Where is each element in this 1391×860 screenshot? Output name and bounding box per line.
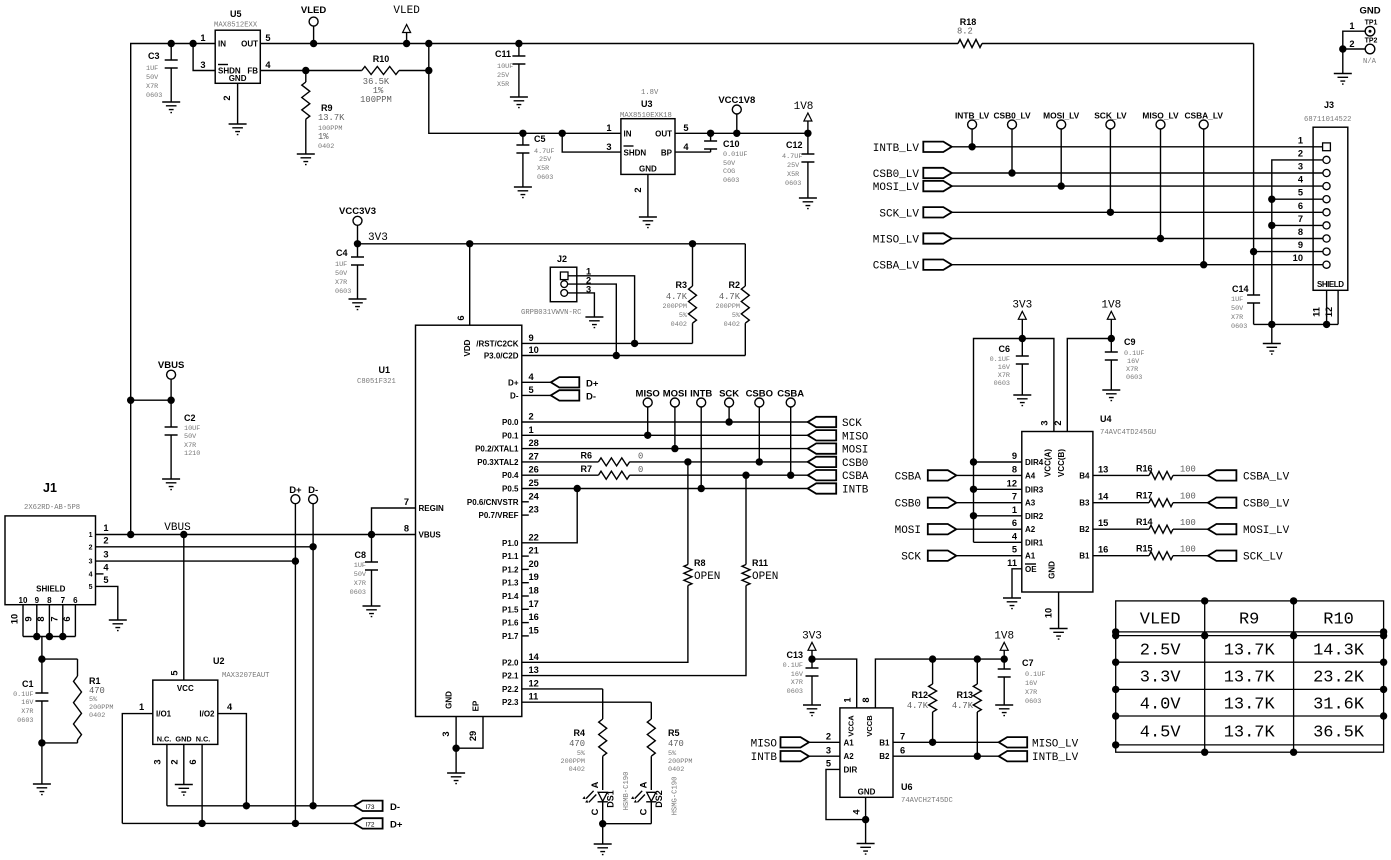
op-amp U5 MAX8512EXK regulator [200, 9, 271, 101]
op-amp U3 MAX8510EXK18 regulator [606, 89, 689, 193]
wire to ground [455, 748, 457, 773]
svg-text:10: 10 [10, 614, 20, 624]
LED DS2 HSMG-C190 [631, 777, 680, 824]
svg-text:P0.0: P0.0 [502, 418, 519, 427]
power symbol 1V8 arrow U4 [1101, 300, 1121, 339]
test point TP2 [1343, 38, 1378, 67]
svg-text:100PPM: 100PPM [360, 95, 392, 105]
wire U5 OUT VLED rail [260, 43, 1253, 45]
svg-text:31.6K: 31.6K [1313, 696, 1365, 715]
wire J3 shield pins 11 12 [1327, 290, 1339, 324]
wire U6 B2 row [893, 755, 999, 757]
wire J3 pin6 row [952, 211, 1323, 213]
svg-text:C: C [639, 808, 649, 815]
svg-text:J2: J2 [557, 254, 567, 264]
svg-text:4: 4 [265, 60, 271, 70]
resistor R12 4.7K [907, 659, 937, 742]
svg-text:DS2: DS2 [654, 790, 664, 808]
svg-text:5: 5 [529, 385, 534, 395]
svg-text:1: 1 [1012, 505, 1017, 515]
svg-text:I/O1: I/O1 [156, 710, 172, 719]
svg-text:IN: IN [218, 40, 226, 49]
wire U5 SHDN [193, 44, 215, 71]
svg-text:P1.6: P1.6 [502, 619, 519, 628]
svg-text:MOSI_LV: MOSI_LV [873, 182, 920, 194]
svg-text:12: 12 [1324, 307, 1334, 317]
svg-text:MOSI: MOSI [842, 445, 868, 457]
svg-text:VCCB: VCCB [865, 715, 874, 737]
flag CSBA to U4 [895, 464, 1022, 483]
node junction GND/EP [452, 745, 459, 752]
svg-text:4.7UF: 4.7UF [782, 153, 802, 161]
svg-text:X5R: X5R [497, 81, 509, 89]
svg-text:MOSI_LV: MOSI_LV [1043, 111, 1080, 121]
wire to ground [865, 820, 867, 844]
svg-text:16V: 16V [998, 364, 1011, 372]
svg-text:13.7K: 13.7K [318, 113, 345, 123]
svg-text:0603: 0603 [1025, 698, 1041, 706]
svg-text:2: 2 [1298, 148, 1303, 158]
svg-text:28: 28 [529, 438, 539, 448]
svg-text:0.1UF: 0.1UF [990, 356, 1010, 364]
svg-text:4: 4 [89, 571, 93, 578]
svg-text:VCC(A): VCC(A) [1044, 449, 1053, 477]
node junction D- column [309, 802, 316, 809]
svg-text:OPEN: OPEN [694, 571, 720, 583]
svg-text:R16: R16 [1136, 463, 1153, 473]
resistor R14 100 / B2 row [1093, 517, 1208, 533]
svg-text:0603: 0603 [994, 380, 1010, 388]
svg-text:D+: D+ [508, 378, 519, 387]
svg-text:4.7K: 4.7K [719, 292, 741, 302]
svg-text:SCK: SCK [719, 389, 739, 400]
svg-text:1: 1 [1298, 135, 1303, 145]
svg-text:16V: 16V [1025, 680, 1038, 688]
svg-text:0603: 0603 [537, 174, 553, 182]
svg-text:X7R: X7R [146, 83, 158, 91]
wire shield to C1 [41, 637, 43, 660]
svg-text:0603: 0603 [785, 180, 801, 188]
capacitor C6 [990, 339, 1029, 396]
svg-text:X5R: X5R [537, 165, 549, 173]
wire J3 pin1 row [952, 146, 1323, 148]
node junction shield bus [1323, 321, 1330, 328]
svg-text:5: 5 [683, 123, 688, 133]
wire to ground [1271, 324, 1273, 343]
svg-text:2: 2 [1053, 420, 1063, 425]
wire J3 pin4 row [952, 185, 1323, 187]
wire U6 GND pin 4 [865, 797, 867, 819]
svg-text:GRPB031VWVN-RC: GRPB031VWVN-RC [521, 309, 582, 317]
svg-text:3: 3 [826, 746, 831, 756]
flag MISO_LV out [999, 737, 1079, 750]
svg-text:36.5K: 36.5K [1313, 724, 1365, 743]
svg-text:GND: GND [175, 735, 191, 744]
svg-text:VLED: VLED [1140, 611, 1181, 630]
flag INTB_LV out [999, 751, 1079, 764]
wire 3V3 to VCC(A) and DIR bus [974, 339, 1054, 543]
svg-text:5: 5 [170, 670, 180, 675]
svg-text:5: 5 [103, 575, 108, 585]
svg-text:U2: U2 [213, 656, 225, 666]
svg-text:IN: IN [624, 130, 632, 139]
svg-text:10UF: 10UF [497, 63, 513, 71]
svg-text:MISO: MISO [751, 738, 778, 750]
net stub CSBO [746, 389, 773, 462]
resistor R7 0 [580, 464, 643, 479]
svg-text:4: 4 [1298, 175, 1304, 185]
svg-text:P2.1: P2.1 [502, 672, 519, 681]
node junction R9/FB [302, 67, 309, 74]
svg-text:A2: A2 [1025, 525, 1036, 534]
svg-text:0603: 0603 [17, 717, 33, 725]
pin 15 P1.7 stub [522, 635, 529, 637]
svg-text:9: 9 [35, 596, 40, 605]
svg-text:X7R: X7R [1126, 366, 1138, 374]
ground under C6 [1013, 395, 1031, 406]
ground under U3 [639, 217, 657, 228]
flag MISO_LV [873, 233, 952, 246]
power symbol 3V3 arrow U4 [1012, 300, 1032, 339]
node junction DIR4 [970, 458, 977, 465]
svg-text:/RST/C2CK: /RST/C2CK [476, 339, 518, 348]
wire MISO row P0.1 [522, 434, 808, 436]
node junction R13 top [974, 655, 981, 662]
wire U2 I/O1 pin 1 [122, 714, 153, 824]
svg-text:TP2: TP2 [1365, 38, 1378, 45]
svg-text:10: 10 [19, 596, 28, 605]
svg-text:X7R: X7R [1025, 689, 1037, 697]
svg-text:R11: R11 [752, 558, 768, 568]
node junction MOSI [671, 445, 678, 452]
svg-text:X7R: X7R [791, 679, 803, 687]
svg-text:R9: R9 [321, 103, 333, 113]
resistor R9 13.7K [302, 71, 345, 155]
svg-text:A2: A2 [844, 752, 855, 761]
net stub D+ [289, 485, 302, 823]
svg-text:12: 12 [1007, 478, 1017, 488]
svg-text:D-: D- [308, 485, 318, 496]
svg-text:3V3: 3V3 [368, 232, 388, 244]
flag SCK [808, 417, 863, 430]
svg-text:25V: 25V [497, 72, 510, 80]
svg-text:5%: 5% [732, 312, 741, 320]
resistor R8 OPEN [522, 462, 721, 662]
svg-text:B1: B1 [1079, 552, 1090, 561]
svg-text:SCK_LV: SCK_LV [879, 208, 919, 220]
wire U3 GND pin 2 [647, 174, 649, 217]
svg-text:21: 21 [529, 546, 539, 556]
svg-text:1: 1 [103, 523, 108, 533]
node junction DS1 cathode [599, 820, 606, 827]
wire J2 pin1 to RST row [568, 276, 635, 344]
svg-text:I73: I73 [365, 804, 374, 811]
wire U3 SHDN [562, 133, 621, 152]
flag SCK_LV out [1208, 551, 1283, 564]
svg-text:1: 1 [89, 532, 93, 539]
svg-text:A3: A3 [1025, 499, 1036, 508]
wire P3.0/C2D row 10 [522, 355, 746, 357]
svg-text:R4: R4 [573, 728, 585, 738]
node junction pin2/D- [309, 543, 316, 550]
wire VLED to U3 IN feed [429, 44, 621, 134]
svg-text:MISO_LV: MISO_LV [873, 235, 920, 247]
net stub INTB [690, 389, 712, 489]
capacitor C9 [1105, 337, 1145, 390]
svg-text:10UF: 10UF [184, 425, 200, 433]
svg-text:6: 6 [456, 315, 466, 320]
resistor R1 470 [74, 659, 114, 743]
svg-text:7: 7 [1012, 492, 1017, 502]
wire D+ row [122, 822, 354, 824]
resistor R16 100 / B4 row [1093, 463, 1208, 479]
node junction R3/3V3 [689, 240, 696, 247]
svg-text:4.5V: 4.5V [1140, 724, 1182, 743]
svg-text:5: 5 [826, 759, 831, 769]
svg-text:10: 10 [1293, 253, 1303, 263]
ground under C8 [363, 606, 381, 617]
resistor R11 OPEN [522, 475, 779, 675]
wire VCCA pin 1 [812, 659, 857, 708]
node junction rail/C2 tap [127, 397, 134, 404]
flag D+ I72 [354, 818, 403, 830]
VLED/R9/R10 lookup table [1112, 597, 1387, 756]
svg-text:12: 12 [529, 678, 539, 688]
svg-text:74AVC4TD245GU: 74AVC4TD245GU [1100, 429, 1156, 437]
svg-text:100: 100 [1180, 464, 1196, 474]
capacitor C12 [782, 133, 814, 198]
node junction P1.0/P0.5 [574, 485, 581, 492]
transceiver U4 74AVC4TD245GU [1022, 414, 1156, 592]
ground under C5 [514, 187, 532, 198]
svg-text:SCK_LV: SCK_LV [1243, 552, 1283, 564]
power symbol VCC1V8 [718, 95, 755, 133]
svg-text:C4: C4 [336, 248, 348, 258]
svg-text:P2.0: P2.0 [502, 658, 519, 667]
svg-text:23.2K: 23.2K [1313, 669, 1365, 688]
svg-text:INTB: INTB [751, 752, 778, 764]
node junction C1/R1 top [38, 655, 45, 662]
svg-text:MOSI: MOSI [895, 525, 921, 537]
capacitor C4 [335, 244, 364, 299]
svg-text:5: 5 [1298, 188, 1303, 198]
svg-text:0603: 0603 [787, 688, 803, 696]
LED DS1 HSMB-C190 [582, 772, 631, 824]
node junction shield bar [33, 633, 40, 640]
svg-text:10: 10 [1044, 608, 1054, 618]
svg-text:C8: C8 [354, 550, 366, 560]
node junction shield bar 2 [46, 633, 53, 640]
svg-text:VCC(B): VCC(B) [1057, 449, 1066, 477]
svg-text:16: 16 [529, 612, 539, 622]
node junction FB/vertical [425, 67, 432, 74]
svg-text:1UF: 1UF [335, 261, 347, 269]
wire cathode bus [603, 824, 652, 844]
svg-text:14: 14 [529, 652, 540, 662]
svg-text:P0.2/XTAL1: P0.2/XTAL1 [475, 445, 519, 454]
net stub CSBA [777, 389, 804, 476]
svg-text:X7R: X7R [354, 580, 366, 588]
resistor R4 470 [561, 689, 607, 790]
node junction DIR2 [970, 512, 977, 519]
node junction REGIN/VBUS [368, 531, 375, 538]
ground under TP [1334, 74, 1352, 85]
wire J2 pin3 to ground [568, 293, 595, 317]
svg-text:16: 16 [1098, 545, 1108, 555]
svg-text:13.7K: 13.7K [1224, 669, 1276, 688]
svg-text:HSMB-C190: HSMB-C190 [623, 772, 631, 811]
svg-text:B4: B4 [1079, 471, 1090, 480]
svg-text:3: 3 [103, 550, 108, 560]
ground under C4 [349, 299, 367, 310]
wire U2 VCC pin 5 [183, 535, 185, 681]
ground under J2 [585, 317, 603, 328]
net stub CSBA_LV [1184, 111, 1223, 269]
svg-text:A1: A1 [844, 738, 855, 747]
node junction pin9 [1250, 248, 1257, 255]
node junction C10 [707, 130, 714, 137]
svg-text:R8: R8 [694, 558, 706, 568]
node junction pin7 [1268, 222, 1275, 229]
wire D- row [167, 805, 354, 807]
wire to R1 top [42, 658, 78, 660]
pin 3 GND wire [455, 717, 457, 749]
svg-text:0603: 0603 [146, 92, 162, 100]
svg-text:100: 100 [1180, 518, 1196, 528]
flag INTB to U6 [751, 746, 840, 765]
svg-text:1UF: 1UF [1231, 296, 1243, 304]
power symbol 3V3 arrow U6 [802, 631, 822, 660]
node junction TP2 [1339, 45, 1346, 52]
wire U6 B1 row [893, 741, 999, 743]
svg-text:J1: J1 [43, 481, 57, 495]
node junction C5 [519, 130, 526, 137]
svg-text:9: 9 [1012, 451, 1017, 461]
svg-text:4: 4 [529, 372, 535, 382]
node junction 1V8/C7 [1001, 655, 1008, 662]
svg-text:50V: 50V [335, 270, 348, 278]
svg-text:P1.4: P1.4 [502, 592, 519, 601]
wire U3 OUT 1V8 rail [675, 132, 808, 134]
capacitor C2 [165, 400, 201, 479]
wire P1.0 to P0.5 [522, 489, 577, 543]
svg-text:VCC3V3: VCC3V3 [339, 206, 376, 217]
svg-text:R18: R18 [960, 17, 977, 27]
resistor R2 4.7K [716, 244, 750, 356]
ground under C1 [33, 784, 51, 795]
wire DIR2 pin 1 [974, 515, 1022, 517]
svg-text:3: 3 [200, 60, 205, 70]
svg-text:2: 2 [633, 187, 643, 192]
node junction VBUS/left rail [127, 531, 134, 538]
ground under C7 [995, 705, 1013, 716]
node junction C12 [804, 130, 811, 137]
svg-text:OPEN: OPEN [752, 571, 778, 583]
node junction J2 pin2/C2D [613, 352, 620, 359]
wire U4 GND pin 10 [1058, 592, 1060, 629]
net stub SCK_LV [1094, 111, 1127, 217]
svg-text:MAX3207EAUT: MAX3207EAUT [222, 672, 270, 680]
svg-text:CSBA_LV: CSBA_LV [1184, 111, 1223, 121]
node junction VCC3V3/C4 [354, 240, 361, 247]
transceiver U6 74AVCH2T45DC [840, 708, 954, 805]
svg-text:SHDN: SHDN [624, 149, 647, 158]
svg-text:R9: R9 [1239, 611, 1259, 630]
ground under C3 [162, 102, 180, 113]
svg-text:50V: 50V [723, 160, 736, 168]
svg-text:8.2: 8.2 [957, 27, 973, 37]
svg-text:3: 3 [606, 142, 611, 152]
ground under R9 [297, 154, 315, 165]
wire J3 pin5 [1272, 198, 1323, 200]
svg-text:D-: D- [586, 391, 596, 402]
svg-text:HSMG-C190: HSMG-C190 [672, 777, 680, 816]
capacitor C5 [516, 133, 554, 187]
pin 6 VDD wire [469, 244, 471, 325]
svg-text:CSB0: CSB0 [842, 458, 868, 470]
node junction INTB col [698, 485, 705, 492]
flag CSB0 [808, 457, 869, 470]
wire J1 pin2 row [96, 546, 314, 548]
svg-text:D+: D+ [586, 378, 599, 389]
svg-text:VCCA: VCCA [847, 715, 856, 737]
svg-text:0.1UF: 0.1UF [13, 691, 33, 699]
svg-text:C12: C12 [786, 140, 803, 150]
capacitor C13 [783, 650, 819, 705]
node junction shield bar 3 [59, 633, 66, 640]
svg-text:1V8: 1V8 [994, 631, 1014, 643]
svg-text:3: 3 [89, 559, 93, 566]
svg-text:INTB: INTB [842, 485, 869, 497]
svg-text:13.7K: 13.7K [1224, 696, 1276, 715]
svg-text:16V: 16V [1127, 358, 1140, 366]
svg-text:74AVCH2T45DC: 74AVCH2T45DC [901, 797, 953, 805]
capacitor C10 [704, 133, 747, 185]
svg-text:D+: D+ [390, 819, 403, 830]
svg-text:C14: C14 [1232, 284, 1249, 294]
svg-text:CSB0_LV: CSB0_LV [993, 111, 1030, 121]
wire VBUS input rail to U5 IN [131, 44, 216, 535]
svg-text:C5: C5 [534, 134, 546, 144]
svg-text:EP: EP [472, 700, 481, 711]
svg-text:0603: 0603 [350, 589, 366, 597]
svg-text:27: 27 [529, 451, 539, 461]
wire VBUS rail J1 pin1 to U1 [96, 534, 416, 536]
node junction VCC1V8 [733, 130, 740, 137]
svg-text:P1.2: P1.2 [502, 565, 519, 574]
flag MISO [808, 430, 869, 443]
wire INTB row P0.5 [522, 488, 808, 490]
svg-text:4.7UF: 4.7UF [534, 148, 554, 156]
svg-text:1: 1 [529, 425, 534, 435]
node junction SCK [725, 418, 732, 425]
svg-text:VCC1V8: VCC1V8 [718, 95, 755, 106]
svg-text:A: A [590, 781, 600, 788]
pin 23 P0.7/VREF stub [522, 514, 529, 516]
svg-text:0: 0 [638, 452, 643, 462]
svg-text:11: 11 [1007, 558, 1017, 568]
wire CSBA row P0.4 [522, 474, 808, 476]
svg-text:0402: 0402 [668, 766, 684, 774]
svg-text:SCK: SCK [901, 552, 921, 564]
flag MOSI to U4 [895, 518, 1022, 537]
svg-text:P0.3XTAL2: P0.3XTAL2 [477, 458, 519, 467]
svg-text:2.5V: 2.5V [1140, 642, 1182, 661]
svg-text:U6: U6 [901, 782, 913, 792]
svg-text:B2: B2 [1079, 525, 1090, 534]
capacitor C8 [350, 535, 378, 607]
svg-text:470: 470 [89, 686, 105, 696]
